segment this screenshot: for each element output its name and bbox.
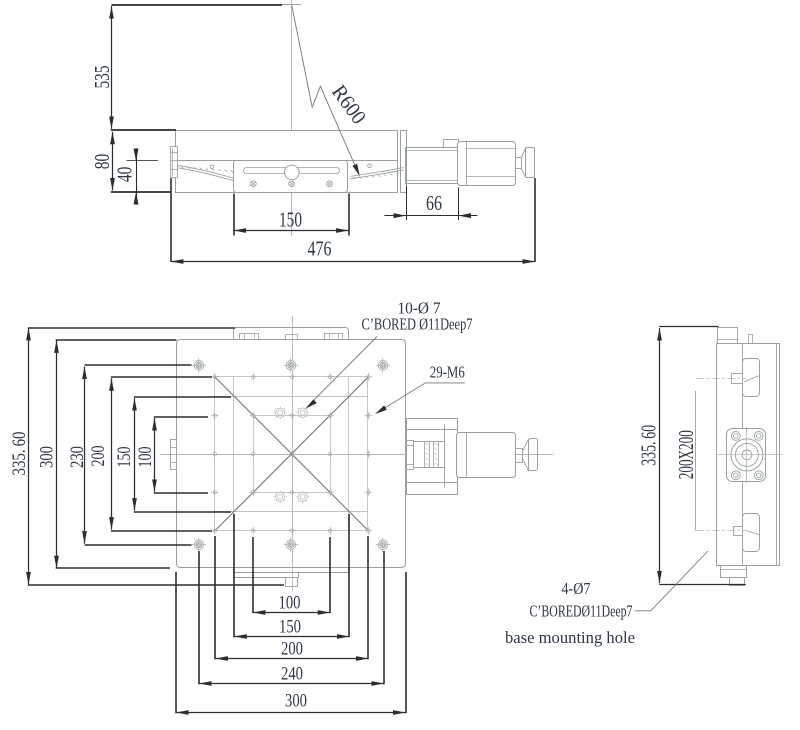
svg-text:240: 240 bbox=[281, 664, 303, 685]
svg-text:100: 100 bbox=[279, 592, 301, 613]
svg-text:66: 66 bbox=[426, 191, 442, 215]
svg-text:200: 200 bbox=[281, 639, 303, 660]
svg-text:150: 150 bbox=[279, 208, 302, 232]
svg-text:230: 230 bbox=[67, 446, 88, 468]
svg-text:335. 60: 335. 60 bbox=[637, 425, 661, 466]
svg-text:4-Ø7: 4-Ø7 bbox=[562, 579, 591, 598]
svg-text:C’BOREDØ11Deep7: C’BOREDØ11Deep7 bbox=[530, 602, 633, 621]
svg-text:150: 150 bbox=[279, 617, 301, 638]
svg-text:base mounting hole: base mounting hole bbox=[505, 628, 635, 647]
svg-text:200: 200 bbox=[88, 446, 109, 467]
svg-text:29-M6: 29-M6 bbox=[430, 363, 465, 382]
svg-text:40: 40 bbox=[112, 167, 136, 183]
svg-text:C’BORED Ø11Deep7: C’BORED Ø11Deep7 bbox=[362, 315, 473, 334]
svg-text:535: 535 bbox=[90, 66, 114, 89]
svg-text:80: 80 bbox=[90, 154, 114, 170]
svg-text:335. 60: 335. 60 bbox=[9, 432, 30, 476]
svg-text:300: 300 bbox=[285, 691, 307, 712]
svg-text:476: 476 bbox=[308, 237, 332, 261]
svg-text:150: 150 bbox=[114, 447, 135, 468]
svg-text:200X200: 200X200 bbox=[674, 430, 698, 479]
svg-text:100: 100 bbox=[135, 447, 156, 468]
svg-text:300: 300 bbox=[36, 446, 57, 468]
